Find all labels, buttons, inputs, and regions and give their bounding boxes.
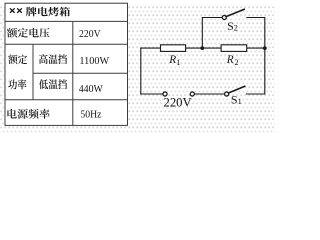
row line above 电源频率 row	[5, 99, 128, 101]
nameplate table frame	[5, 3, 128, 125]
table text r2: 额定电压	[7, 28, 17, 38]
svg-text:1100W: 1100W	[79, 55, 109, 67]
wire: between 220V right terminal and S1 terminal	[195, 93, 225, 95]
resistor R2 body	[221, 45, 247, 52]
svg-text:220V: 220V	[79, 28, 101, 40]
junction node right of R2	[263, 46, 267, 50]
wire: left vertical	[140, 48, 142, 94]
column line col1/col2 (rows 3-4 only)	[32, 44, 34, 100]
switch S2 pivot terminal	[222, 15, 226, 19]
wire: bottom left segment to 220V terminal	[141, 93, 163, 95]
wire: junction up to top	[202, 18, 222, 49]
switch S1 pivot terminal	[225, 92, 229, 96]
row line under header	[5, 20, 128, 22]
svg-text:440W: 440W	[79, 83, 104, 95]
wire: after S1 to bottom-right corner	[246, 93, 264, 95]
wire: R2 to right node	[247, 47, 265, 49]
svg-text:50Hz: 50Hz	[80, 109, 101, 121]
table text hdr: 牌电烤箱	[26, 7, 37, 17]
table text r5: 电源频率	[7, 109, 16, 119]
wire: after S2 to top-right corner, down right side	[247, 18, 265, 95]
row line under 额定电压 row	[5, 43, 128, 45]
resistor R1 body	[161, 45, 186, 52]
junction node between R1 and R2	[200, 46, 204, 50]
switch S1 blade	[229, 86, 245, 93]
table text r34a: 额定	[8, 54, 17, 64]
header ×× marks	[10, 9, 21, 13]
table text r4: 低温挡	[39, 79, 48, 89]
row line between 高温挡 and 低温挡 (cols 2-3 only)	[33, 72, 128, 74]
wire: middle horizontal left of R1	[141, 47, 161, 49]
wire: R1 to junction to R2	[186, 47, 222, 49]
switch S2 blade	[226, 9, 244, 16]
svg-text:220V: 220V	[164, 95, 192, 109]
table text r34b: 功率	[8, 79, 17, 89]
column line col2/col3	[72, 21, 74, 125]
source terminal right (220V)	[190, 92, 194, 96]
source terminal left (220V)	[163, 92, 167, 96]
table text r3: 高温挡	[39, 54, 48, 64]
